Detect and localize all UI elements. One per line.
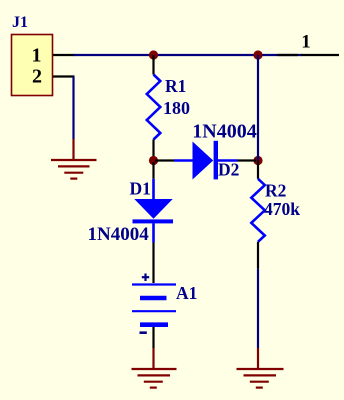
resistor R2 pin bottom: [257, 242, 259, 269]
wire: R2 bottom to ground: [257, 269, 259, 348]
svg-text:J1: J1: [12, 14, 28, 31]
svg-text:2: 2: [32, 66, 42, 88]
junction at D1/D2 node: [149, 156, 158, 165]
pin 2 (stub): [53, 75, 75, 77]
diode D2 right pin (black part): [238, 159, 257, 161]
diode D2 cathode bar: [214, 141, 218, 180]
svg-text:1N4004: 1N4004: [88, 224, 150, 245]
diode D2 left pin (black part): [155, 159, 174, 161]
svg-text:1N4004: 1N4004: [192, 121, 256, 143]
battery A1 plate 4 (short thick): [140, 322, 168, 327]
wire: top horizontal net (pin1 to right edge): [74, 54, 303, 56]
ground GND3 bars: [237, 369, 284, 388]
ground GND3 stem: [257, 348, 259, 369]
resistor R2 zigzag: [251, 179, 264, 242]
junction at R1 top: [149, 50, 158, 59]
pin 1 (stub): [53, 54, 75, 56]
diode D1 triangle: [134, 199, 172, 219]
wire: black segment right of gap: [301, 54, 339, 56]
svg-text:R1: R1: [165, 76, 186, 96]
battery A1 plate 1 (long): [132, 283, 176, 285]
diode D1 top lead (blue part): [152, 179, 155, 199]
battery A1 plate 2 (short thick): [140, 296, 167, 301]
diode D1 bottom lead (blue part): [152, 223, 155, 242]
svg-text:470k: 470k: [264, 199, 300, 219]
svg-text:D2: D2: [218, 159, 239, 179]
wire: black overlay segment left of net label: [278, 54, 299, 56]
ground GND1 stem: [72, 139, 74, 160]
connector J1 body: [12, 35, 53, 96]
svg-text:1: 1: [301, 32, 311, 53]
svg-text:A1: A1: [176, 283, 197, 303]
diode D1 top pin (black part): [152, 162, 154, 179]
resistor R1 zigzag: [147, 75, 161, 140]
junction at top of R2 branch: [253, 50, 262, 59]
battery A1 minus sign: [140, 331, 147, 334]
diode D2 left lead (blue part): [174, 159, 193, 162]
resistor R1 pin top: [152, 55, 154, 75]
resistor R2 pin top: [257, 161, 259, 179]
ground GND1 bars: [51, 160, 97, 179]
ground GND2 stem: [152, 348, 154, 369]
wire: pin2 down to ground: [72, 77, 74, 140]
diode D2 right lead (blue part): [218, 159, 238, 162]
svg-text:R2: R2: [265, 181, 286, 201]
diode D1 bottom pin (black part): [152, 243, 154, 284]
resistor R1 pin bottom: [152, 140, 154, 161]
battery A1 plus sign: [142, 274, 149, 282]
wire: vertical right branch between junctions: [257, 55, 259, 161]
ground GND2 bars: [132, 369, 177, 388]
svg-text:D1: D1: [130, 179, 151, 199]
diode D2 triangle: [193, 142, 214, 180]
diode D1 cathode bar: [133, 219, 174, 223]
svg-text:180: 180: [163, 98, 190, 118]
battery A1 plate 3 (long): [132, 310, 176, 312]
svg-text:1: 1: [32, 45, 42, 67]
junction at D2 cathode / R2 node: [253, 156, 262, 165]
wire: battery minus to ground: [152, 327, 154, 348]
